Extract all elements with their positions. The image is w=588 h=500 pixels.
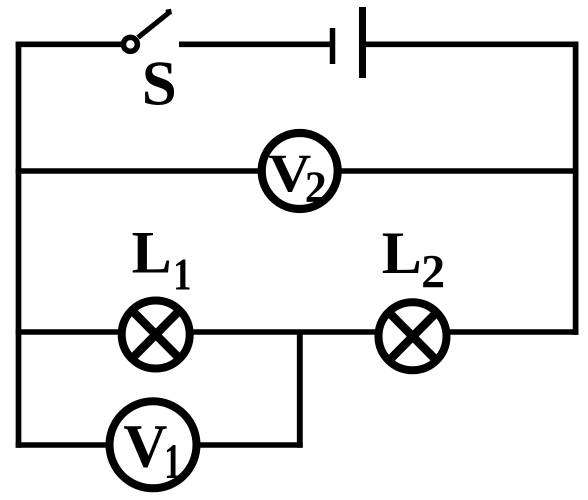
wire top-left to switch bbox=[16, 41, 121, 47]
voltmeter V1 circle bbox=[110, 401, 197, 488]
wire V2 branch right bbox=[336, 168, 578, 174]
wire V2 branch left bbox=[16, 168, 264, 174]
label V2 bbox=[268, 143, 326, 211]
wire lamp branch left bbox=[16, 329, 124, 335]
label L1 bbox=[132, 220, 192, 301]
wire bottom right segment bbox=[196, 442, 303, 448]
wire battery to top-right corner bbox=[366, 41, 578, 47]
wire junction vertical to V1 bbox=[297, 332, 303, 448]
svg-text:1: 1 bbox=[173, 250, 191, 301]
svg-text:S: S bbox=[142, 49, 177, 119]
battery negative plate bbox=[330, 28, 336, 64]
svg-text:L: L bbox=[132, 220, 172, 286]
lamp L2 bbox=[379, 302, 447, 370]
lamp L1 bbox=[122, 301, 190, 369]
wire bottom left segment bbox=[16, 442, 112, 448]
svg-text:V: V bbox=[123, 414, 167, 481]
svg-text:1: 1 bbox=[164, 435, 181, 490]
svg-text:2: 2 bbox=[305, 163, 327, 212]
svg-text:L: L bbox=[382, 220, 422, 286]
wire L2 to right corner bbox=[444, 329, 578, 335]
wire left vertical bbox=[16, 42, 22, 448]
switch S bbox=[123, 12, 171, 52]
wire right vertical bbox=[573, 42, 579, 335]
wire L1 to L2 bbox=[188, 329, 380, 335]
svg-text:2: 2 bbox=[421, 246, 445, 299]
label V1 bbox=[123, 414, 181, 490]
wire switch to battery bbox=[179, 41, 330, 47]
battery positive plate bbox=[359, 7, 366, 78]
label L2 bbox=[382, 220, 445, 299]
voltmeter V2 circle bbox=[262, 133, 338, 209]
